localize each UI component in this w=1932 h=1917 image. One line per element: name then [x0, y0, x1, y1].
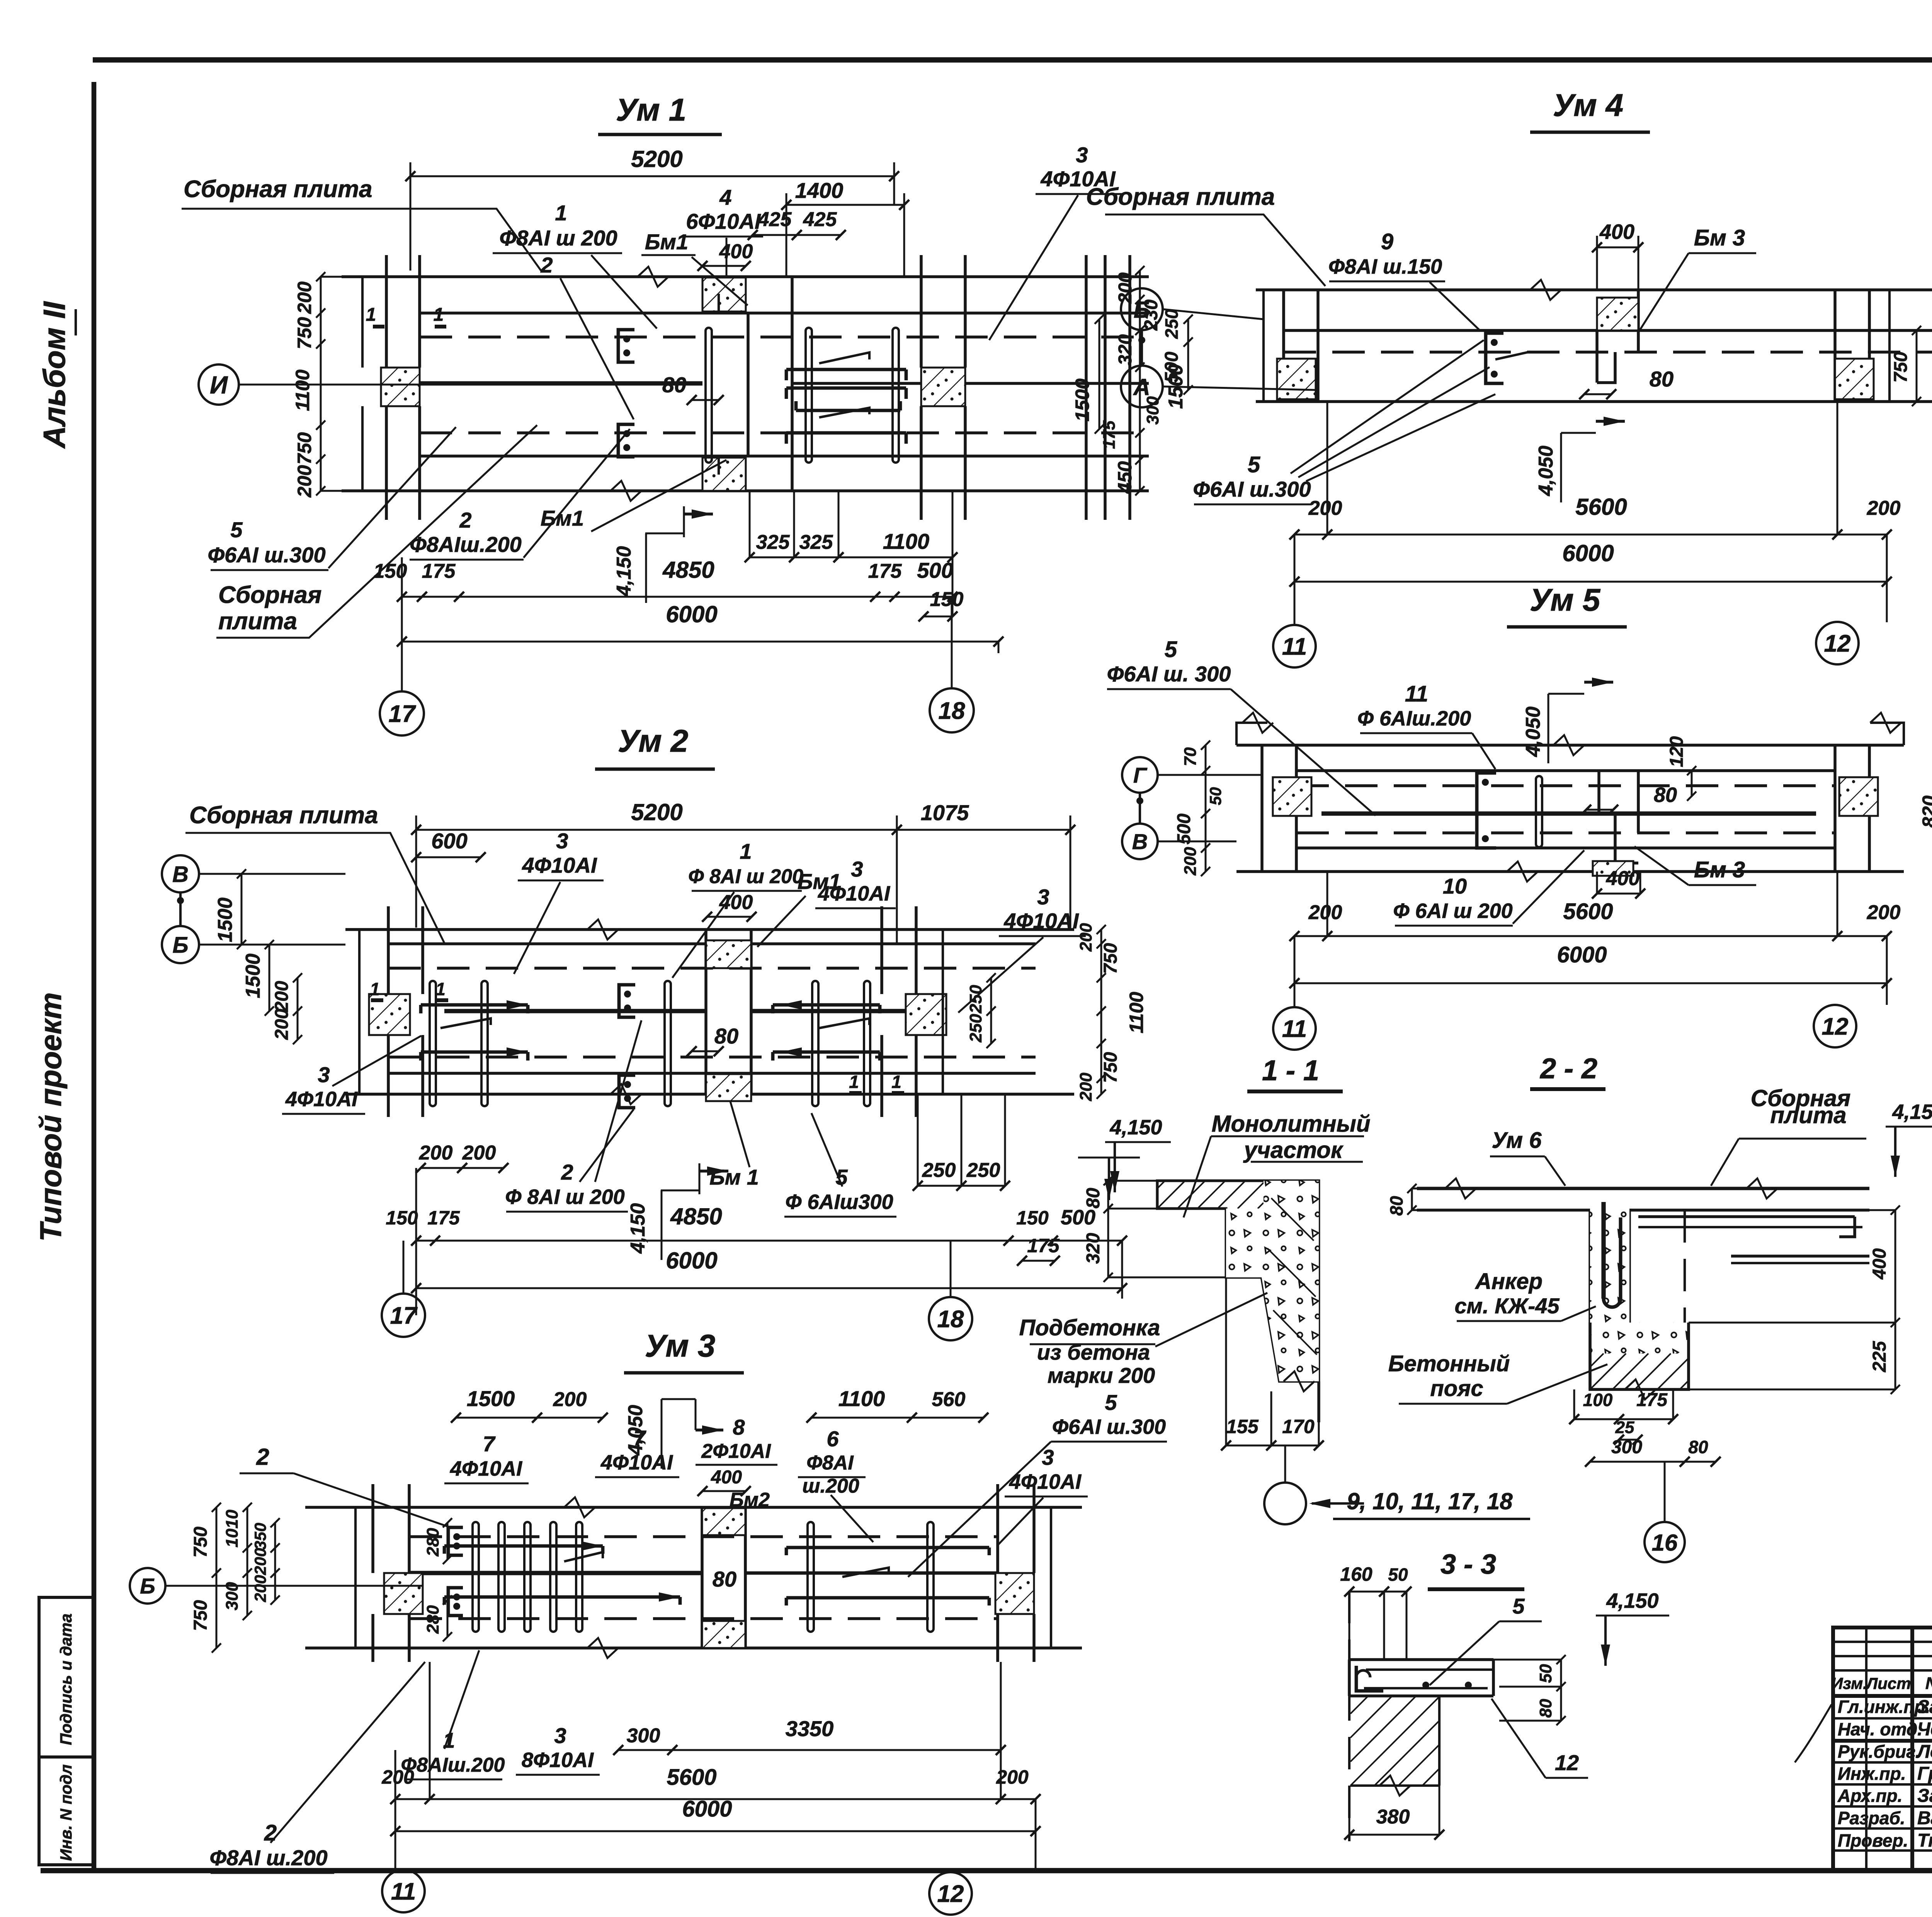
svg-text:225: 225 [1869, 1341, 1890, 1372]
svg-text:80: 80 [713, 1567, 736, 1591]
svg-text:1: 1 [366, 305, 376, 325]
svg-text:280: 280 [423, 1528, 442, 1557]
svg-text:8Ф10АI: 8Ф10АI [522, 1748, 594, 1772]
svg-text:4,150: 4,150 [1606, 1589, 1658, 1612]
svg-text:2Ф10АI: 2Ф10АI [701, 1440, 771, 1462]
svg-text:11: 11 [1282, 633, 1307, 660]
svg-text:560: 560 [932, 1388, 966, 1411]
svg-text:Подпись и дата: Подпись и дата [57, 1614, 75, 1745]
svg-text:280: 280 [423, 1605, 442, 1634]
svg-text:1100: 1100 [1126, 992, 1147, 1033]
svg-text:12: 12 [1822, 1013, 1849, 1040]
svg-text:Монолитный: Монолитный [1212, 1111, 1371, 1137]
svg-text:50: 50 [1536, 1664, 1555, 1683]
svg-text:320: 320 [1115, 334, 1136, 365]
svg-text:Ф 6АIш300: Ф 6АIш300 [785, 1190, 893, 1214]
svg-text:Бм 3: Бм 3 [1694, 225, 1745, 250]
svg-text:400: 400 [1599, 220, 1634, 243]
svg-text:5: 5 [1165, 637, 1177, 662]
svg-text:Ум 6: Ум 6 [1492, 1128, 1542, 1153]
svg-text:плита: плита [1770, 1102, 1846, 1128]
svg-text:3: 3 [851, 857, 863, 881]
svg-text:4,150: 4,150 [1892, 1100, 1932, 1124]
svg-text:11: 11 [1405, 681, 1428, 707]
svg-text:200: 200 [1308, 497, 1342, 519]
svg-text:6000: 6000 [682, 1796, 732, 1822]
svg-text:5200: 5200 [631, 799, 682, 825]
svg-text:80: 80 [1083, 1188, 1104, 1209]
svg-text:6Ф10АI: 6Ф10АI [686, 209, 761, 233]
svg-text:50: 50 [1388, 1565, 1408, 1585]
svg-text:1100: 1100 [292, 369, 313, 411]
svg-text:450: 450 [1114, 461, 1136, 494]
svg-text:80: 80 [1536, 1699, 1555, 1718]
svg-text:Альбом II: Альбом II [37, 301, 71, 449]
svg-text:5: 5 [230, 518, 243, 542]
svg-text:300: 300 [627, 1725, 660, 1747]
svg-text:300: 300 [223, 1582, 241, 1611]
svg-text:820: 820 [1918, 795, 1932, 828]
svg-text:100: 100 [1583, 1390, 1613, 1410]
svg-text:см. КЖ-45: см. КЖ-45 [1455, 1294, 1560, 1318]
svg-text:150: 150 [386, 1207, 418, 1229]
svg-text:17: 17 [389, 701, 416, 727]
svg-text:25: 25 [1615, 1418, 1634, 1437]
svg-text:10: 10 [1443, 874, 1467, 898]
svg-text:Ф8АI ш.200: Ф8АI ш.200 [209, 1845, 327, 1870]
svg-text:4,150: 4,150 [627, 1203, 649, 1254]
svg-text:3: 3 [1076, 143, 1088, 167]
svg-text:150: 150 [1016, 1207, 1049, 1229]
svg-text:N докум.: N докум. [1925, 1674, 1932, 1693]
svg-text:Ум 1: Ум 1 [616, 92, 687, 128]
svg-text:12: 12 [1824, 630, 1851, 657]
svg-text:350: 350 [251, 1523, 269, 1550]
svg-text:плита: плита [218, 608, 297, 635]
svg-text:5600: 5600 [667, 1765, 716, 1790]
svg-text:И: И [210, 371, 228, 399]
svg-text:Подбетонка: Подбетонка [1019, 1315, 1160, 1340]
svg-text:6000: 6000 [1562, 540, 1614, 566]
svg-text:5600: 5600 [1575, 494, 1627, 520]
svg-text:200: 200 [251, 1548, 269, 1575]
svg-text:Ткаченко: Ткаченко [1917, 1830, 1932, 1851]
svg-text:500: 500 [1061, 1206, 1095, 1229]
svg-text:1: 1 [849, 1072, 859, 1092]
svg-text:1100: 1100 [838, 1386, 885, 1411]
svg-text:1: 1 [555, 201, 567, 225]
svg-text:2: 2 [540, 253, 553, 277]
svg-text:4Ф10АI: 4Ф10АI [600, 1451, 673, 1474]
svg-text:Бетонный: Бетонный [1388, 1351, 1510, 1376]
svg-text:Типовой проект: Типовой проект [34, 993, 68, 1242]
svg-text:Ф8АI ш 200: Ф8АI ш 200 [499, 226, 617, 250]
svg-text:1010: 1010 [223, 1510, 241, 1548]
svg-text:500: 500 [1162, 352, 1182, 383]
svg-text:3 - 3: 3 - 3 [1440, 1549, 1496, 1580]
svg-text:участок: участок [1243, 1137, 1344, 1163]
svg-text:325: 325 [799, 531, 833, 553]
svg-text:600: 600 [431, 829, 467, 853]
svg-text:80: 80 [1688, 1437, 1708, 1457]
svg-text:Гл.инж.пр.: Гл.инж.пр. [1838, 1697, 1930, 1717]
svg-text:1: 1 [370, 979, 380, 999]
svg-text:Ф 8АI ш 200: Ф 8АI ш 200 [505, 1185, 624, 1209]
svg-text:4,150: 4,150 [1109, 1116, 1162, 1139]
svg-text:200: 200 [1308, 901, 1342, 924]
svg-text:200: 200 [1115, 272, 1136, 304]
svg-text:3: 3 [554, 1723, 566, 1748]
svg-text:Ф 6АIш.200: Ф 6АIш.200 [1357, 707, 1471, 730]
svg-text:250: 250 [966, 1014, 985, 1043]
svg-text:пояс: пояс [1430, 1376, 1483, 1401]
svg-text:4: 4 [719, 185, 731, 209]
svg-text:Арх.пр.: Арх.пр. [1837, 1786, 1903, 1806]
svg-text:16: 16 [1652, 1530, 1678, 1556]
svg-text:70: 70 [1181, 747, 1200, 766]
svg-text:1400: 1400 [795, 178, 844, 203]
svg-text:200: 200 [553, 1388, 587, 1411]
svg-text:500: 500 [917, 558, 953, 582]
svg-text:6000: 6000 [666, 601, 717, 627]
svg-text:400: 400 [719, 240, 753, 263]
svg-text:4Ф10АI: 4Ф10АI [522, 853, 597, 877]
svg-text:1: 1 [891, 1072, 901, 1092]
svg-text:Провер.: Провер. [1838, 1830, 1908, 1851]
svg-text:250: 250 [966, 1159, 1000, 1182]
svg-text:17: 17 [390, 1302, 418, 1329]
svg-text:Разраб.: Разраб. [1838, 1808, 1905, 1828]
svg-text:4Ф10АI: 4Ф10АI [285, 1088, 358, 1111]
svg-text:5: 5 [1105, 1390, 1117, 1415]
svg-text:1: 1 [434, 305, 444, 325]
svg-text:Ф8АI ш.150: Ф8АI ш.150 [1328, 255, 1442, 278]
svg-text:750: 750 [1100, 1052, 1121, 1083]
svg-text:Ф6АI ш. 300: Ф6АI ш. 300 [1107, 662, 1231, 686]
svg-text:200: 200 [462, 1142, 496, 1164]
svg-text:Лист: Лист [1865, 1674, 1911, 1692]
svg-text:Бм 1: Бм 1 [709, 1165, 759, 1189]
svg-text:250: 250 [922, 1159, 956, 1182]
svg-text:200: 200 [1077, 1073, 1095, 1102]
svg-text:18: 18 [937, 1306, 964, 1333]
svg-text:750: 750 [1891, 352, 1911, 383]
svg-text:3: 3 [556, 829, 568, 853]
svg-text:марки 200: марки 200 [1048, 1363, 1155, 1388]
svg-text:4,150: 4,150 [613, 546, 635, 597]
svg-text:9, 10, 11, 17, 18: 9, 10, 11, 17, 18 [1347, 1488, 1513, 1514]
svg-text:9: 9 [1381, 229, 1393, 254]
svg-text:11: 11 [391, 1878, 416, 1905]
svg-text:6000: 6000 [1557, 942, 1607, 967]
svg-text:Закхеева: Закхеева [1917, 1786, 1932, 1806]
svg-text:12: 12 [1555, 1750, 1579, 1775]
svg-text:120: 120 [1667, 736, 1687, 767]
svg-text:200: 200 [1867, 901, 1901, 924]
svg-text:А: А [1133, 374, 1150, 400]
svg-text:175: 175 [427, 1207, 460, 1229]
svg-text:175: 175 [1636, 1390, 1668, 1410]
svg-text:750: 750 [1100, 943, 1121, 974]
svg-text:200: 200 [272, 981, 292, 1012]
svg-text:3350: 3350 [786, 1716, 834, 1741]
svg-text:Ум 3: Ум 3 [645, 1328, 716, 1364]
svg-text:425: 425 [803, 208, 837, 231]
svg-text:750: 750 [294, 317, 315, 349]
svg-text:Ф 8АI ш 200: Ф 8АI ш 200 [688, 865, 803, 888]
svg-text:425: 425 [758, 208, 792, 231]
svg-text:Ум 5: Ум 5 [1530, 582, 1601, 618]
svg-text:3: 3 [318, 1062, 330, 1087]
svg-text:Ф6АI ш.300: Ф6АI ш.300 [1052, 1415, 1166, 1439]
svg-text:2 - 2: 2 - 2 [1539, 1052, 1597, 1084]
svg-text:6: 6 [827, 1427, 839, 1451]
svg-text:155: 155 [1226, 1416, 1259, 1437]
svg-text:1075: 1075 [921, 800, 969, 825]
svg-text:Инж.пр.: Инж.пр. [1838, 1764, 1906, 1784]
svg-text:400: 400 [1869, 1248, 1890, 1280]
svg-text:4,050: 4,050 [1522, 707, 1544, 757]
svg-text:325: 325 [756, 531, 790, 553]
svg-text:80: 80 [714, 1024, 738, 1048]
svg-text:Ф 6АI ш 200: Ф 6АI ш 200 [1393, 899, 1512, 923]
svg-text:250: 250 [966, 985, 985, 1014]
svg-text:7: 7 [483, 1432, 496, 1456]
svg-text:Сборная плита: Сборная плита [189, 802, 378, 829]
svg-text:3: 3 [1037, 885, 1049, 909]
svg-text:400: 400 [1606, 867, 1640, 890]
svg-text:750: 750 [190, 1600, 211, 1631]
svg-text:1: 1 [435, 979, 446, 999]
svg-text:Сборная плита: Сборная плита [184, 176, 372, 203]
svg-text:3: 3 [1042, 1445, 1054, 1469]
svg-text:5600: 5600 [1563, 899, 1613, 924]
svg-text:Рук.бриг.: Рук.бриг. [1838, 1742, 1920, 1762]
svg-text:250: 250 [1162, 309, 1182, 339]
svg-text:150: 150 [930, 588, 964, 611]
svg-text:380: 380 [1376, 1806, 1410, 1828]
svg-text:80: 80 [662, 373, 686, 397]
svg-text:200: 200 [1077, 923, 1095, 952]
svg-text:170: 170 [1282, 1416, 1315, 1437]
svg-text:200: 200 [294, 281, 315, 314]
svg-text:200: 200 [294, 465, 315, 498]
svg-text:Сборная плита: Сборная плита [1086, 184, 1275, 210]
svg-text:Бм 3: Бм 3 [1694, 857, 1745, 882]
svg-text:1500: 1500 [1071, 378, 1093, 421]
svg-text:80: 80 [1654, 783, 1677, 807]
svg-text:5200: 5200 [631, 146, 682, 172]
svg-text:Ф8АI: Ф8АI [806, 1452, 854, 1474]
svg-text:1500: 1500 [467, 1386, 515, 1411]
svg-text:2: 2 [459, 508, 471, 532]
svg-text:50: 50 [1206, 787, 1225, 805]
svg-text:160: 160 [1340, 1563, 1372, 1585]
svg-text:В: В [1132, 829, 1148, 854]
svg-text:80: 80 [1386, 1196, 1406, 1216]
svg-text:Бм1: Бм1 [541, 506, 584, 530]
svg-text:Ф6АI ш.300: Ф6АI ш.300 [207, 543, 325, 567]
svg-text:80: 80 [1650, 367, 1673, 391]
svg-text:200: 200 [381, 1766, 414, 1788]
svg-text:1100: 1100 [883, 529, 929, 553]
svg-text:Ум 4: Ум 4 [1553, 88, 1624, 123]
svg-text:400: 400 [719, 891, 753, 914]
svg-text:Ф8АIш.200: Ф8АIш.200 [401, 1754, 505, 1776]
svg-text:300: 300 [1143, 396, 1162, 425]
svg-text:Инв. N подл: Инв. N подл [57, 1764, 75, 1861]
svg-text:Анкер: Анкер [1475, 1269, 1543, 1294]
svg-text:4850: 4850 [662, 557, 714, 583]
svg-text:4Ф10АI: 4Ф10АI [450, 1457, 522, 1480]
svg-text:400: 400 [711, 1467, 742, 1488]
svg-text:Нач. отд.: Нач. отд. [1838, 1719, 1922, 1739]
svg-text:320: 320 [1083, 1233, 1104, 1264]
svg-text:5: 5 [1248, 452, 1260, 477]
svg-text:750: 750 [190, 1527, 211, 1558]
svg-text:200: 200 [251, 1575, 269, 1602]
svg-text:Ф8АIш.200: Ф8АIш.200 [410, 532, 522, 557]
svg-text:175: 175 [422, 560, 456, 582]
svg-text:7: 7 [633, 1426, 646, 1450]
svg-text:Бм1: Бм1 [645, 230, 688, 254]
svg-text:200: 200 [1867, 497, 1901, 519]
svg-text:Грибанова: Грибанова [1917, 1764, 1932, 1784]
svg-text:Васильева: Васильева [1917, 1808, 1932, 1828]
svg-text:11: 11 [1282, 1016, 1307, 1042]
svg-text:500: 500 [1174, 814, 1194, 844]
svg-text:2: 2 [561, 1160, 573, 1184]
svg-text:Ф6АI ш.300: Ф6АI ш.300 [1193, 477, 1311, 501]
svg-text:Б: Б [1134, 297, 1150, 323]
svg-text:Б: Б [140, 1574, 155, 1598]
svg-text:2: 2 [256, 1444, 269, 1470]
svg-text:6000: 6000 [666, 1248, 717, 1273]
svg-text:1: 1 [740, 839, 752, 863]
svg-text:4Ф10АI: 4Ф10АI [1009, 1470, 1082, 1493]
svg-text:8: 8 [733, 1415, 745, 1439]
svg-text:Сборная: Сборная [218, 582, 321, 608]
svg-text:Б: Б [172, 933, 188, 958]
svg-text:Лободко: Лободко [1916, 1742, 1932, 1762]
svg-text:4Ф10АI: 4Ф10АI [818, 882, 890, 905]
svg-text:1 - 1: 1 - 1 [1262, 1054, 1319, 1086]
svg-text:Изм.: Изм. [1831, 1674, 1867, 1692]
svg-text:ш.200: ш.200 [802, 1475, 859, 1497]
svg-text:4,050: 4,050 [1535, 446, 1557, 496]
svg-text:1500: 1500 [242, 953, 264, 998]
svg-text:4850: 4850 [670, 1204, 722, 1229]
svg-text:5: 5 [1512, 1594, 1525, 1618]
svg-text:200: 200 [419, 1142, 453, 1164]
svg-text:Ум 2: Ум 2 [618, 724, 689, 759]
svg-text:Г: Г [1133, 763, 1148, 787]
svg-text:175: 175 [868, 560, 902, 582]
svg-text:18: 18 [939, 698, 965, 724]
svg-text:В: В [172, 862, 189, 887]
svg-text:Чечик: Чечик [1917, 1719, 1932, 1740]
svg-text:200: 200 [1181, 847, 1200, 876]
svg-text:1500: 1500 [214, 897, 236, 942]
svg-text:Закрочимский: Закрочимский [1917, 1697, 1932, 1717]
svg-text:12: 12 [937, 1881, 964, 1907]
svg-text:750: 750 [294, 432, 315, 465]
svg-text:200: 200 [272, 1009, 292, 1040]
